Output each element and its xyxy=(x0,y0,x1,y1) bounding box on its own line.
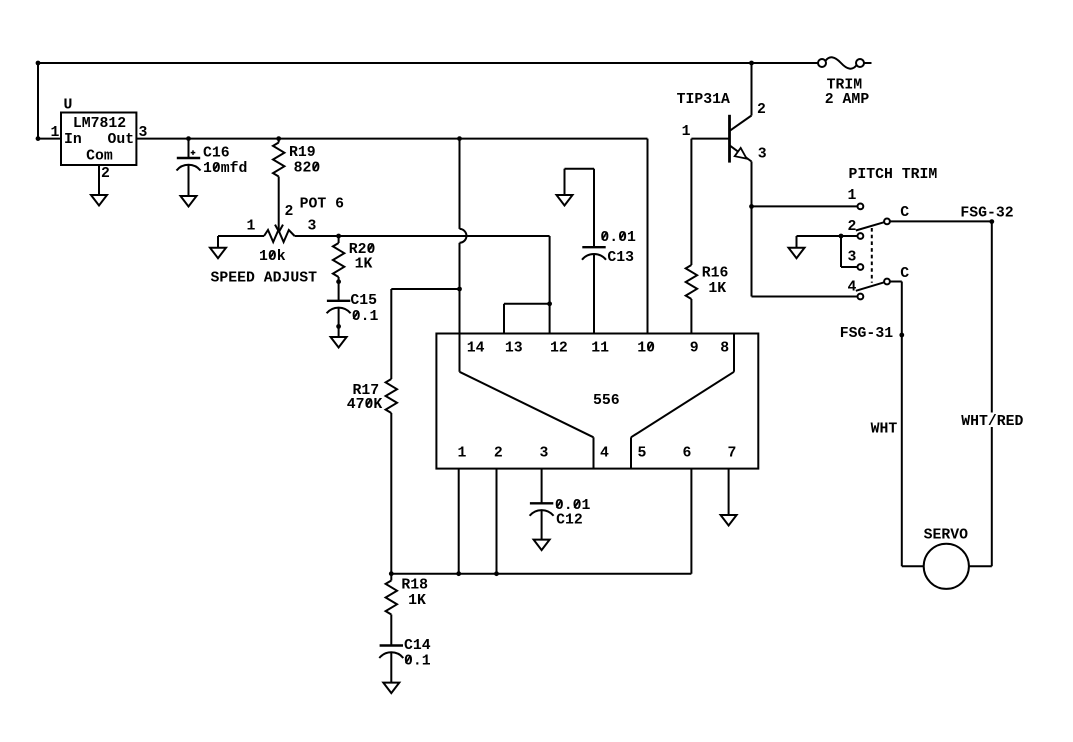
svg-text:1: 1 xyxy=(51,125,60,141)
svg-text:5: 5 xyxy=(638,446,647,462)
svg-text:POT 6: POT 6 xyxy=(300,196,345,212)
svg-text:4: 4 xyxy=(848,280,857,296)
svg-text:11: 11 xyxy=(591,341,609,357)
svg-text:13: 13 xyxy=(505,341,523,357)
svg-text:9: 9 xyxy=(690,341,699,357)
svg-text:C14: C14 xyxy=(404,638,431,654)
svg-text:TIP31A: TIP31A xyxy=(677,92,730,108)
svg-text:1K: 1K xyxy=(408,593,426,609)
svg-text:2 AMP: 2 AMP xyxy=(825,92,870,108)
svg-text:10mfd: 10mfd xyxy=(203,161,247,177)
svg-text:R20: R20 xyxy=(349,242,376,258)
svg-text:10k: 10k xyxy=(259,249,286,265)
svg-text:FSG-31: FSG-31 xyxy=(840,326,893,342)
svg-text:556: 556 xyxy=(593,393,620,409)
svg-text:14: 14 xyxy=(467,341,485,357)
svg-text:820: 820 xyxy=(294,161,321,177)
svg-text:C: C xyxy=(900,205,909,221)
svg-text:12: 12 xyxy=(550,341,568,357)
svg-text:2: 2 xyxy=(848,219,857,235)
svg-text:In: In xyxy=(64,132,82,148)
svg-text:PITCH TRIM: PITCH TRIM xyxy=(849,167,938,183)
svg-text:2: 2 xyxy=(101,166,110,182)
svg-text:C16: C16 xyxy=(203,145,230,161)
svg-text:3: 3 xyxy=(308,219,317,235)
svg-text:1K: 1K xyxy=(355,256,373,272)
svg-text:SPEED ADJUST: SPEED ADJUST xyxy=(211,271,318,287)
svg-text:0.1: 0.1 xyxy=(352,309,379,325)
svg-text:7: 7 xyxy=(728,446,737,462)
svg-text:1: 1 xyxy=(682,124,691,140)
svg-text:2: 2 xyxy=(494,446,503,462)
svg-text:FSG-32: FSG-32 xyxy=(960,206,1013,222)
svg-text:2: 2 xyxy=(757,102,766,118)
svg-text:WHT/RED: WHT/RED xyxy=(961,414,1023,430)
svg-text:1: 1 xyxy=(848,188,857,204)
svg-text:3: 3 xyxy=(139,125,148,141)
svg-text:SERVO: SERVO xyxy=(924,528,969,544)
svg-text:1: 1 xyxy=(458,446,467,462)
svg-text:6: 6 xyxy=(683,446,692,462)
svg-text:C12: C12 xyxy=(556,513,583,529)
svg-text:C15: C15 xyxy=(350,293,377,309)
svg-text:3: 3 xyxy=(539,446,548,462)
svg-text:R18: R18 xyxy=(401,577,428,593)
svg-text:3: 3 xyxy=(758,146,767,162)
svg-text:470K: 470K xyxy=(347,397,383,413)
svg-text:Com: Com xyxy=(86,149,113,165)
svg-text:1: 1 xyxy=(247,219,256,235)
svg-text:Out: Out xyxy=(108,132,135,148)
svg-text:R19: R19 xyxy=(289,145,316,161)
svg-text:WHT: WHT xyxy=(871,422,898,438)
svg-text:3: 3 xyxy=(848,250,857,266)
svg-text:1K: 1K xyxy=(708,281,726,297)
svg-text:LM7812: LM7812 xyxy=(73,116,126,132)
svg-text:0.1: 0.1 xyxy=(404,654,431,670)
svg-text:R16: R16 xyxy=(702,265,729,281)
svg-text:U: U xyxy=(64,98,73,114)
svg-text:C: C xyxy=(900,266,909,282)
svg-text:C13: C13 xyxy=(607,250,634,266)
svg-text:8: 8 xyxy=(720,341,729,357)
svg-text:2: 2 xyxy=(285,204,294,220)
svg-text:4: 4 xyxy=(600,446,609,462)
